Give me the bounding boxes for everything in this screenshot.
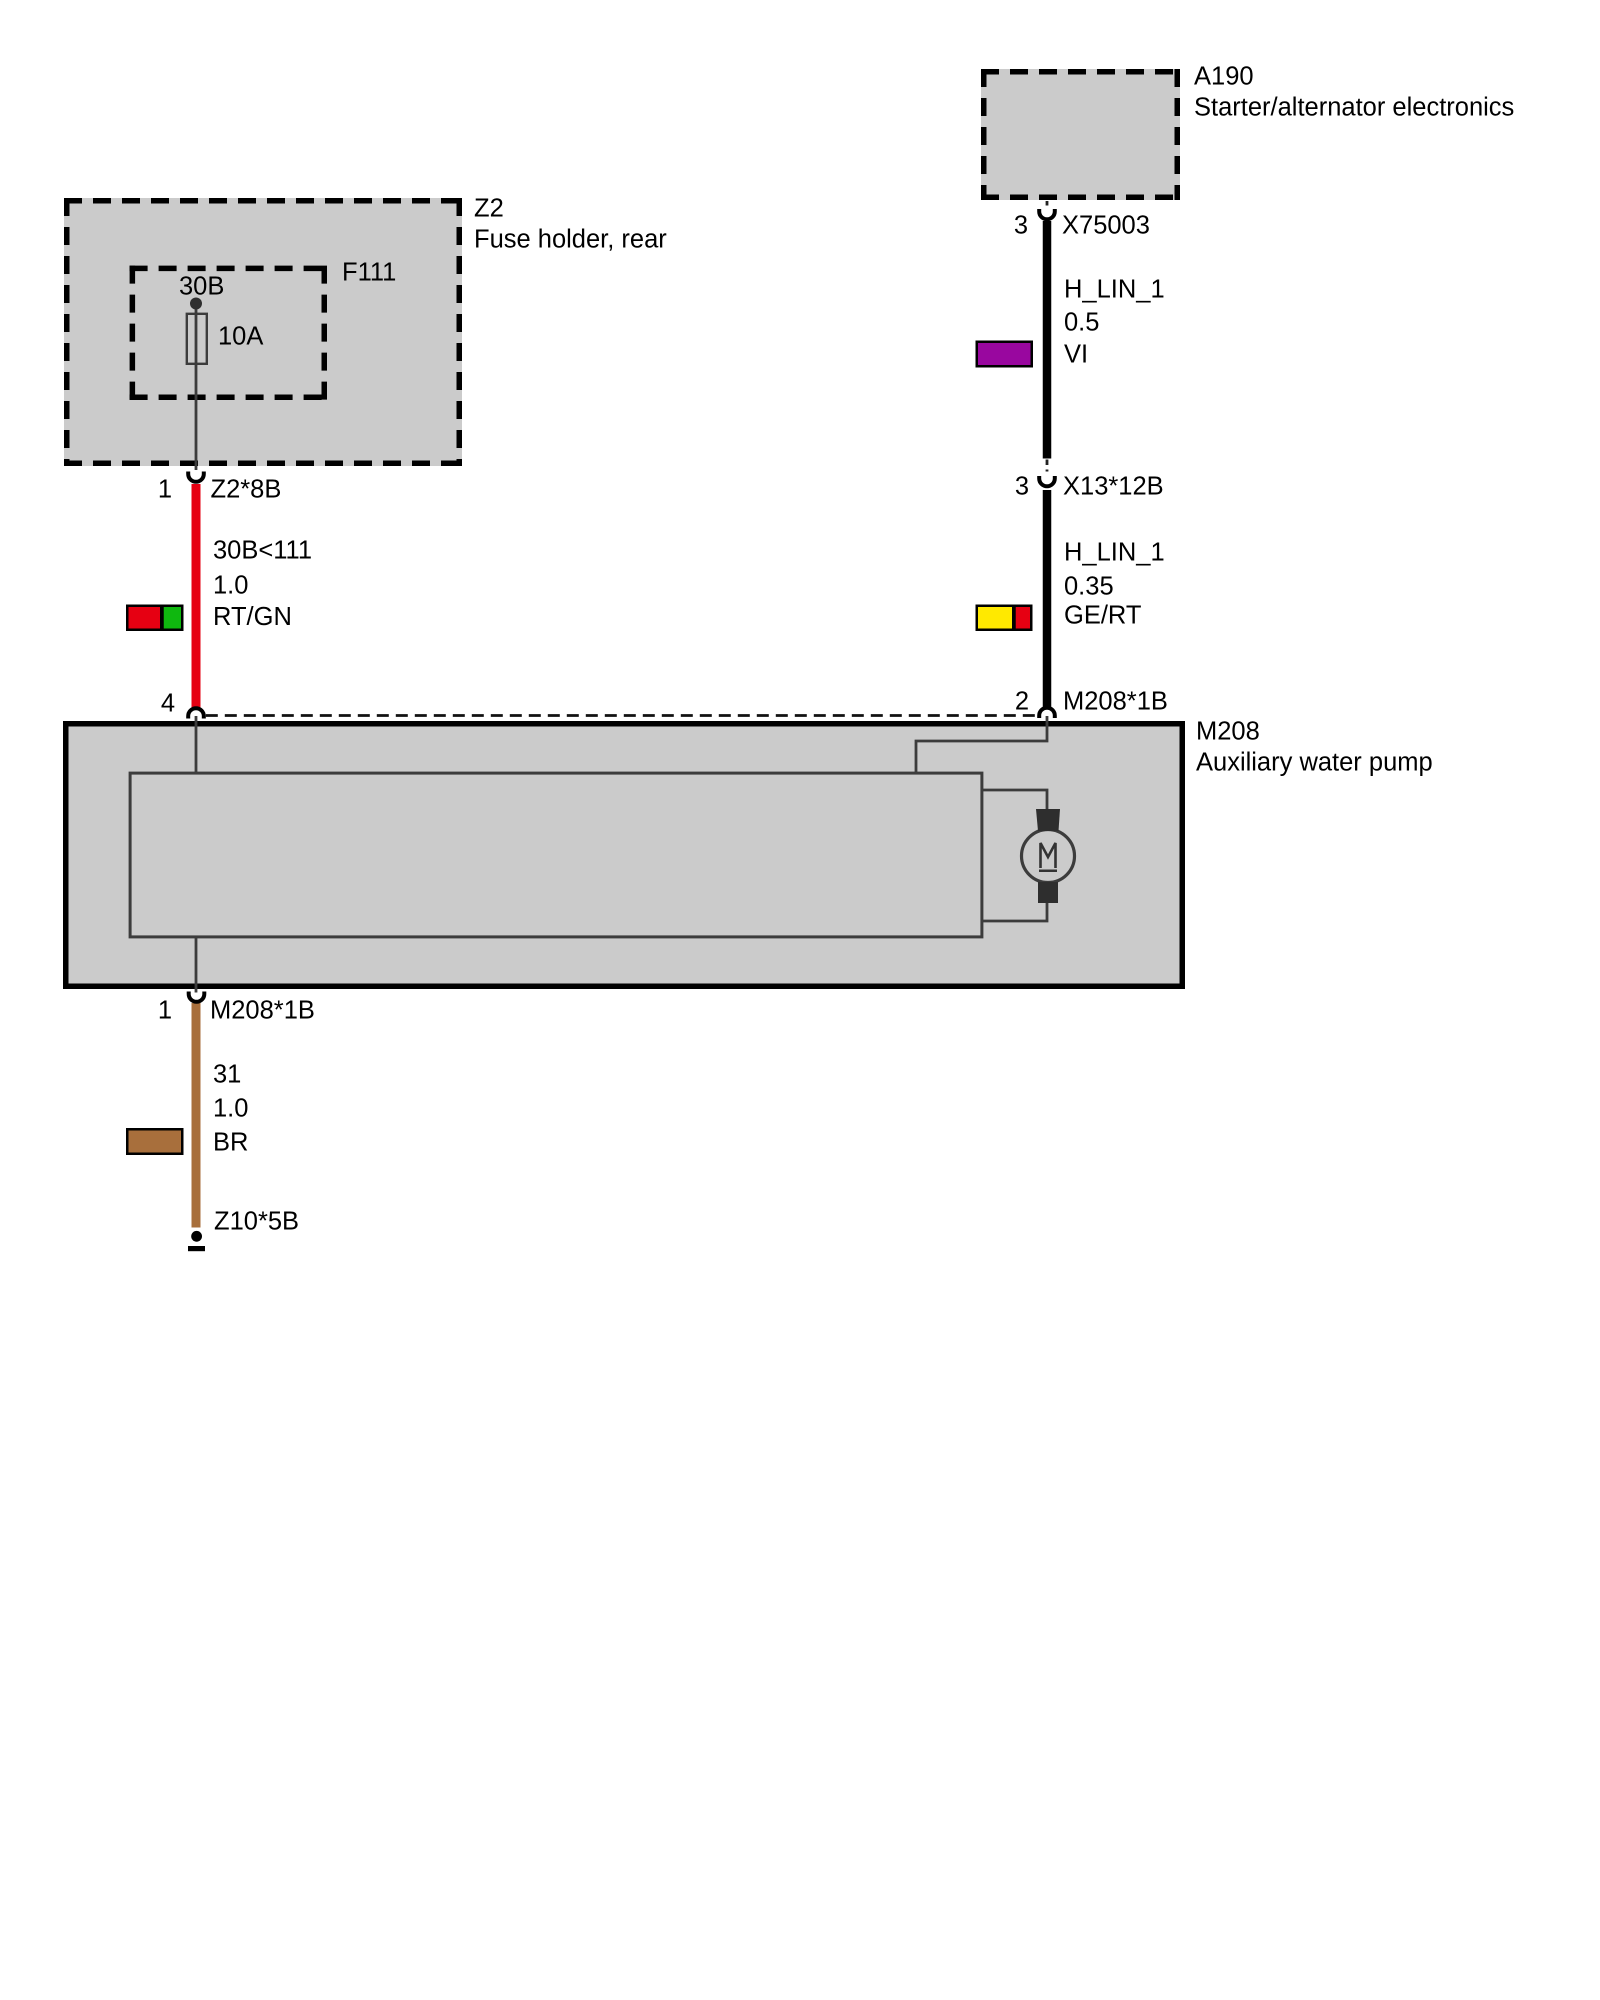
- svg-text:H_LIN_1: H_LIN_1: [1064, 276, 1165, 304]
- svg-text:Auxiliary water pump: Auxiliary water pump: [1196, 749, 1433, 777]
- svg-text:2: 2: [1015, 688, 1029, 716]
- svg-text:0.5: 0.5: [1064, 309, 1099, 337]
- svg-text:M208*1B: M208*1B: [1063, 688, 1168, 716]
- svg-text:1.0: 1.0: [213, 572, 248, 600]
- svg-text:X13*12B: X13*12B: [1063, 473, 1164, 501]
- svg-text:3: 3: [1015, 473, 1029, 501]
- svg-text:Z10*5B: Z10*5B: [214, 1208, 299, 1236]
- svg-text:1.0: 1.0: [213, 1095, 248, 1123]
- svg-text:BR: BR: [213, 1129, 248, 1157]
- svg-text:30B: 30B: [179, 273, 224, 301]
- svg-text:31: 31: [213, 1061, 241, 1089]
- svg-text:A190: A190: [1194, 63, 1254, 91]
- svg-text:X75003: X75003: [1062, 212, 1150, 240]
- svg-text:M208*1B: M208*1B: [210, 997, 315, 1025]
- svg-text:Starter/alternator electronics: Starter/alternator electronics: [1194, 94, 1514, 122]
- svg-text:RT/GN: RT/GN: [213, 603, 292, 631]
- svg-text:Fuse holder, rear: Fuse holder, rear: [474, 226, 667, 254]
- svg-text:4: 4: [161, 690, 175, 718]
- svg-text:0.35: 0.35: [1064, 573, 1114, 601]
- svg-text:Z2*8B: Z2*8B: [211, 476, 282, 504]
- svg-text:M208: M208: [1196, 718, 1260, 746]
- svg-text:1: 1: [158, 476, 172, 504]
- svg-text:F111: F111: [342, 259, 396, 287]
- svg-text:H_LIN_1: H_LIN_1: [1064, 539, 1165, 567]
- svg-text:VI: VI: [1064, 341, 1088, 369]
- svg-text:10A: 10A: [218, 323, 263, 351]
- svg-text:1: 1: [158, 997, 172, 1025]
- svg-text:GE/RT: GE/RT: [1064, 602, 1141, 630]
- svg-text:3: 3: [1014, 212, 1028, 240]
- svg-text:30B<111: 30B<111: [213, 537, 312, 565]
- svg-text:Z2: Z2: [474, 195, 504, 223]
